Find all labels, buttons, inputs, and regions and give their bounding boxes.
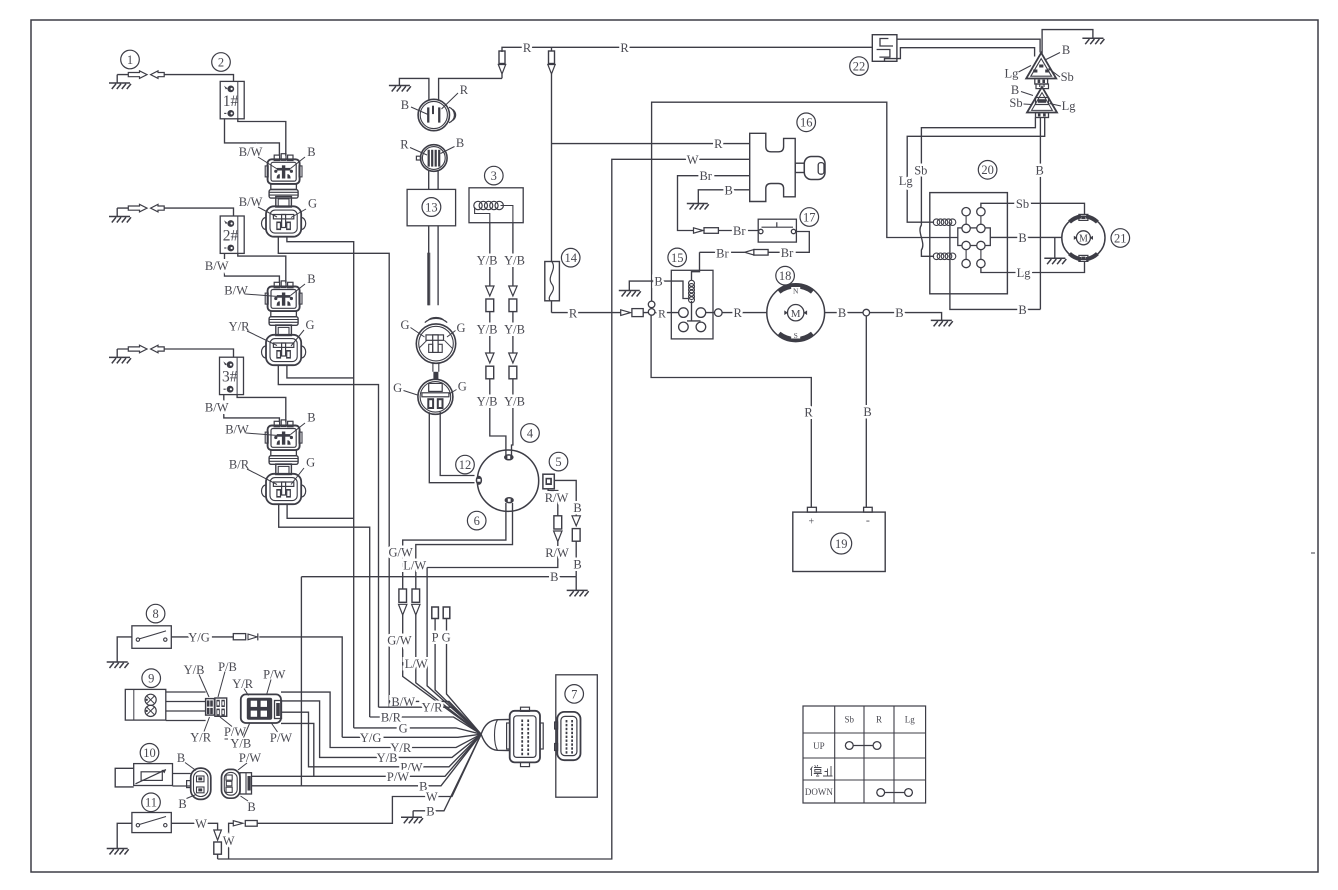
svg-text:R: R [620,41,629,55]
svg-text:1: 1 [127,53,133,67]
item number 19 [831,533,852,554]
PTT relay box 20 [930,193,1008,294]
stem between c1 and c2 [433,363,439,372]
connector circle R-B (lower, to box 13) [421,145,448,172]
edge tick right [1311,552,1315,554]
svg-text:21: 21 [1114,231,1127,245]
square connector coil1 primary B/W-B [274,155,279,160]
starter motor 18 [767,284,825,342]
item number 7 [565,685,584,704]
svg-text:15: 15 [671,251,684,265]
wire P to fan [435,619,481,735]
svg-text:G: G [399,721,408,735]
wire R relay15 to starter motor [706,312,767,314]
svg-text:B: B [1018,303,1026,317]
svg-text:B: B [247,800,255,814]
svg-text:B: B [178,797,186,811]
wire G joins oval3 [287,504,354,518]
svg-text:R: R [658,309,666,321]
svg-text:17: 17 [803,210,816,224]
PTT switch table [803,706,926,803]
spark plug arrows 3 [128,345,147,353]
wire Y/R trunk row to fan [379,707,482,734]
svg-text:2#: 2# [223,228,239,245]
svg-text:9: 9 [148,672,154,686]
key switch 16 body [750,133,796,201]
svg-text:Lg: Lg [1062,99,1077,113]
wire W from key switch down and across bottom [218,159,750,859]
wire Br from relay17 to relay15 [768,232,809,253]
svg-text:Y/B: Y/B [477,323,498,337]
svg-text:R: R [400,138,409,152]
svg-text:B/W: B/W [224,284,248,298]
svg-text:7: 7 [571,687,577,701]
item number 1 [121,50,140,69]
connector 10 oval [191,768,211,799]
relay 15 box [671,270,713,339]
svg-text:B/W: B/W [205,259,229,273]
svg-text:B: B [1018,231,1026,245]
svg-text:B/W: B/W [239,145,263,159]
P terminal pad [432,607,439,619]
svg-text:1#: 1# [223,93,239,110]
wire R/W from connector5 [548,489,558,516]
relay 17 box [758,219,796,242]
oval connector pulser2 Y/R-G [276,325,292,336]
connector 10 mate [222,769,241,798]
wire plug to coil box 3 [117,349,233,357]
connector c2 G-G [418,379,453,414]
wire G row to fan [354,728,481,734]
svg-text:R: R [804,406,813,420]
svg-text:B: B [307,145,315,159]
svg-text:W: W [195,817,207,831]
svg-text:3: 3 [491,169,497,183]
battery 19 [807,507,816,512]
svg-text:Lg: Lg [899,174,914,188]
svg-text:B: B [838,306,846,320]
svg-text:G/W: G/W [387,634,412,648]
wire W from box 11 [171,823,217,830]
svg-text:Sb: Sb [1009,96,1022,110]
item number 5 [549,452,568,471]
R loop from battery via junction to relay 20 [652,102,958,301]
connector on Y/G wire [233,634,245,640]
wire R vertical feed (to key switch and relay line) [551,47,553,312]
wire from 22 lower out [885,48,1035,62]
wire G trunk [287,237,354,728]
svg-text:B: B [456,136,464,150]
wire Lg out of relay20 [981,261,1085,272]
ignition coil box 3# [220,357,244,394]
svg-text:12: 12 [459,458,472,472]
relay20 coil upper [933,219,940,226]
svg-text:Br: Br [716,247,729,261]
label 停止 (stop) [810,765,832,776]
Y/B chain left [489,223,491,286]
wire L/W from magneto bottom pin [416,503,513,589]
svg-text:B/R: B/R [229,458,250,472]
wires box10 to connector 10 [173,774,191,787]
wire G joins oval2 [287,365,354,378]
svg-text:Br: Br [733,224,746,238]
svg-text:G: G [456,321,465,335]
svg-text:18: 18 [779,269,792,283]
item number 10 [140,744,159,763]
oval connector pulser3 B/R-G [276,464,292,475]
box10 side loop [115,768,134,787]
CDI unit box 13 [407,189,456,225]
item number 9 [142,669,161,688]
svg-text:R: R [460,83,469,97]
wire B from connector5 down to ground [554,480,576,515]
rectifier item 14 [545,262,560,301]
svg-text:19: 19 [835,537,848,551]
svg-text:Y/R: Y/R [190,731,212,745]
item number 18 [776,266,795,285]
ECU female connector [555,722,558,729]
svg-text:20: 20 [981,163,994,177]
svg-text:B: B [1062,43,1070,57]
trim sender box 10 [134,764,173,786]
spark plug arrows 1 [128,71,147,79]
wire B conn10 to fan [252,734,482,786]
wire Sb from T2 to relay20 coil [920,118,1035,257]
svg-text:B: B [426,804,434,818]
svg-text:8: 8 [152,607,158,621]
svg-text:W: W [223,834,235,848]
svg-text:+: + [808,517,814,528]
svg-text:Br: Br [781,246,794,260]
magneto left pin (12) [476,476,482,485]
connector 9 mate [241,694,281,723]
wire P/B conn9 joins P/W row2 [281,723,314,776]
item number 22 [850,57,869,76]
wire B from T2 down to relay20 common [1039,118,1041,310]
item number 20 [978,161,997,180]
wire box11 to ground [117,823,132,848]
wire B/W trunk [278,237,389,707]
svg-text:B: B [550,570,558,584]
svg-text:Y/B: Y/B [477,395,498,409]
svg-text:16: 16 [800,116,813,130]
DOWN row contact [877,789,885,797]
Y/B chain right [512,223,514,286]
svg-text:B: B [1036,163,1044,177]
wire Sb out of relay20 [981,203,1085,214]
wires box9 to pin block [166,692,206,721]
svg-text:Y/G: Y/G [188,630,210,644]
relay 15 coil [689,280,695,286]
ignition coil box 1# [220,81,244,118]
coil leads box3 [475,206,513,223]
wire coil3 to connector [224,395,286,423]
svg-text:Y/B: Y/B [230,737,251,751]
svg-text:N: N [793,287,799,296]
svg-text:G/W: G/W [389,546,414,560]
wire B/W row to fan [389,701,481,734]
item number 11 [142,793,161,812]
connector c1 G-G (crossed) [425,317,447,322]
svg-text:B: B [1011,83,1019,97]
fuse on R drop to connector 13 [499,51,505,64]
svg-text:P/W: P/W [239,751,261,765]
harness boot [481,720,510,751]
wire coil2 to connector [225,253,286,283]
switch box 11 [132,813,171,833]
wire Y/R conn9 to fan [281,692,481,747]
svg-text:B: B [573,501,581,515]
relay20 contacts [962,208,970,216]
relay20 contact block [958,228,991,246]
svg-text:B: B [654,275,662,289]
svg-text:B: B [895,306,903,320]
svg-text:L/W: L/W [405,657,428,671]
spark plug arrows 2 [128,204,147,212]
svg-text:22: 22 [853,60,866,74]
item number 4 [521,424,540,443]
svg-text:L/W: L/W [403,558,426,572]
svg-text:Y/B: Y/B [477,254,498,268]
svg-text:Y/R: Y/R [232,677,254,691]
square connector coil3 primary B/W-B [274,421,279,426]
wire long B bus to ground [301,576,576,578]
relay20 coil lower [933,253,940,260]
wire Lg from T2 to relay20 coil [907,118,1044,223]
svg-text:G: G [400,318,409,332]
svg-text:Sb: Sb [1016,197,1029,211]
wire G(spare) to fan [447,619,482,735]
wire B from key switch to ground [698,190,749,204]
connector circle B-R (top of 13) [418,99,449,130]
svg-text:G: G [308,197,317,211]
wires lower circle to CDI box 13 [429,171,438,190]
svg-text:G: G [305,318,314,332]
svg-text:B/W: B/W [205,401,229,415]
svg-text:5: 5 [555,455,561,469]
svg-text:R: R [523,41,532,55]
wire B out ground branch [1054,237,1056,258]
ECU male connector [507,723,510,749]
UP row contact [845,742,853,750]
wire B starter motor to ground [825,313,942,321]
wire P/W conn10 to fan [252,734,482,776]
svg-text:-: - [866,513,870,527]
svg-text:S: S [794,331,798,340]
svg-text:Y/B: Y/B [377,751,398,765]
relay20 coil common wire [950,222,1041,309]
wire R riser to battery [651,315,811,507]
svg-text:6: 6 [474,514,480,528]
wire B battery negative [865,316,867,507]
wire coil1 to connector [225,119,286,156]
svg-text:Y/B: Y/B [184,663,205,677]
relay15 contacts [679,308,689,318]
svg-text:W: W [426,790,438,804]
wire plug to coil box 1 [117,75,233,82]
svg-text:P/W: P/W [263,668,285,682]
svg-text:M: M [791,308,801,320]
svg-text:UP: UP [813,741,825,751]
connector 22 box [872,35,897,62]
svg-text:R: R [734,306,743,320]
ECU box 7 [556,675,598,797]
magneto bottom pin (6) [505,497,514,503]
wire Y/G to fan [259,637,481,737]
item number 21 [1111,229,1130,248]
wires c2 to magneto left pin [429,412,474,483]
spark plug ground 3 [116,349,118,357]
svg-text:G: G [458,380,467,394]
svg-text:Br: Br [699,169,712,183]
svg-text:B/W: B/W [225,423,249,437]
oval connector pulser1 B/W-G [276,197,292,208]
svg-text:13: 13 [425,200,438,214]
svg-text:DOWN: DOWN [805,787,833,797]
wire B bus riser [300,577,302,786]
wire B row2 with ground [413,734,481,817]
svg-text:G: G [393,381,402,395]
svg-text:B: B [307,411,315,425]
svg-text:B: B [725,183,733,197]
svg-text:R/W: R/W [545,546,569,560]
wire box8 to ground [117,637,132,662]
wire B out of relay20 to motor 21 [990,236,1062,238]
svg-text:Y/B: Y/B [504,323,525,337]
junction bullets on R riser [648,301,655,308]
ground of connector 13 [399,78,429,99]
svg-text:Y/B: Y/B [504,254,525,268]
svg-text:3#: 3# [222,369,238,386]
PTT motor 21 [1062,216,1105,259]
W fuse column [214,830,222,840]
svg-text:Sb: Sb [845,715,855,725]
wire from 22 to trim sender (upper) [897,39,1040,52]
magneto / CDI rotor circle 4 [477,450,538,511]
svg-text:R: R [569,307,578,321]
wires box13 down to connector [429,226,438,305]
svg-text:R: R [714,137,723,151]
wire B to ground under magneto [575,577,577,591]
svg-text:P: P [432,631,439,645]
svg-text:W: W [687,153,699,167]
svg-text:Y/R: Y/R [422,701,444,715]
wire Y/G from box 8 [171,636,233,638]
horn box 9 [125,689,166,720]
item number 17 [800,208,819,227]
square connector coil2 primary B/W-B [274,282,279,287]
svg-text:P/W: P/W [387,770,409,784]
svg-text:Sb: Sb [914,164,927,178]
svg-text:Lg: Lg [905,715,915,725]
wire B into relay15 [629,281,700,321]
R rail top [502,47,872,52]
wire P/W conn9 to fan [281,712,481,767]
trim sender triangle T1 [1026,53,1056,79]
svg-text:G: G [306,456,315,470]
wire R/W vertical to harness fan [427,568,481,735]
wire Y/R trunk [278,365,378,707]
svg-text:P/B: P/B [218,660,237,674]
svg-text:B: B [307,272,315,286]
wire plug to coil box 2 [117,208,233,216]
svg-text:10: 10 [143,746,156,760]
fuse on R vertical feed [549,51,555,64]
ignition coil box 2# [220,216,244,253]
item number 15 [668,248,687,267]
svg-text:14: 14 [564,251,577,265]
connector 5 on magneto [543,474,554,489]
item number 16 [797,113,816,132]
svg-text:B: B [863,405,871,419]
svg-text:B/W: B/W [239,195,263,209]
wire B trim sender to ground (top right) [1042,30,1093,54]
svg-text:B: B [401,98,409,112]
wire B/R trunk [279,504,370,717]
wire R line through relay 15 [552,312,621,314]
connector on Br wire [694,228,704,233]
svg-text:R/W: R/W [545,491,569,505]
svg-text:Sb: Sb [1061,70,1074,84]
svg-text:4: 4 [527,426,534,440]
G terminal pad [443,607,450,619]
wire G/W from magneto bottom pin [403,503,506,589]
connector 9 pin block [206,699,215,716]
item number 6 [467,511,486,530]
item number 12 [456,455,475,474]
spark plug ground 2 [116,208,118,216]
svg-text:G: G [442,631,451,645]
coil symbol in box 3 [474,201,482,209]
svg-text:Lg: Lg [1017,266,1032,280]
wire Br into relay15 coil [692,252,700,280]
lighting coil box 3 [469,188,523,223]
wire Br from key switch [678,176,750,231]
svg-text:P/W: P/W [270,731,292,745]
svg-text:Y/B: Y/B [504,395,525,409]
item number 8 [146,604,165,623]
svg-text:B: B [177,751,185,765]
svg-text:Lg: Lg [1004,67,1019,81]
svg-text:B: B [573,558,581,572]
switch box 8 [132,626,171,649]
svg-text:R: R [876,715,882,725]
trim sender triangle T2 (harness side) [1040,84,1044,87]
wire W branch up to connector and fan [229,823,234,859]
wire R drop to connector-13 circle [439,74,502,100]
item number 3 [485,166,504,185]
svg-text:M: M [1079,234,1088,245]
item number 14 [561,248,580,267]
wire B/R row to fan [370,717,481,734]
magneto top pin [504,454,514,460]
svg-text:11: 11 [145,796,157,810]
svg-text:Y/G: Y/G [360,731,382,745]
svg-text:2: 2 [218,55,224,69]
item number 2 [212,53,231,72]
wire R branch to key switch [552,143,750,145]
spark plug ground 1 [116,75,118,83]
wire Y/B conn9 to fan [281,701,481,758]
